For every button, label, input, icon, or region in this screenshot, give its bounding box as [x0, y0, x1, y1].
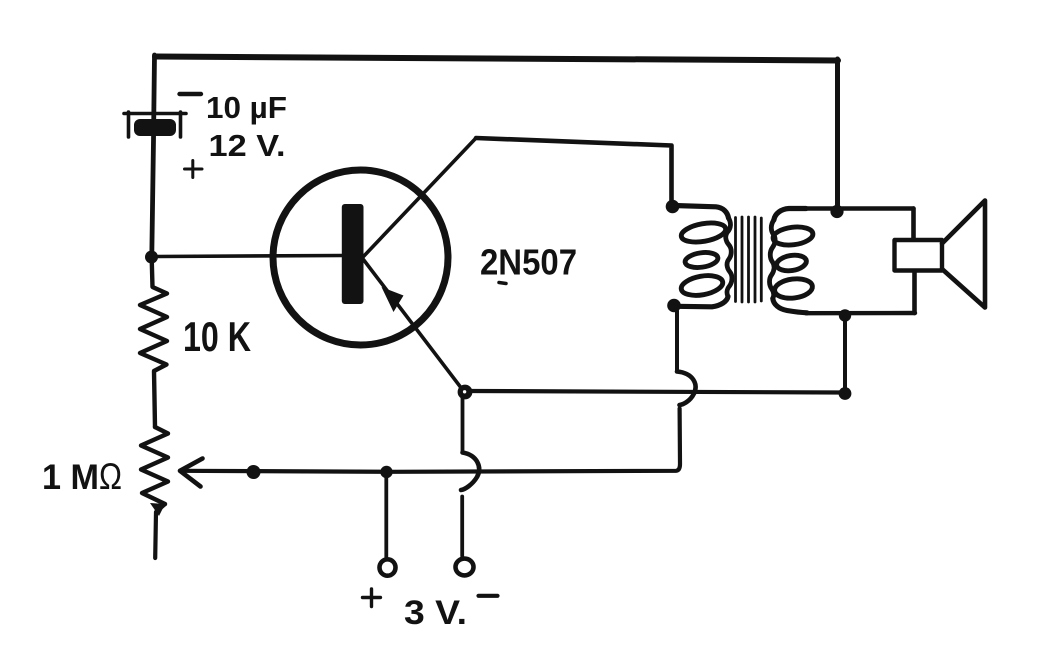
svg-text:10 µF: 10 µF	[206, 90, 287, 125]
transistor Q1 emitter lead	[363, 259, 462, 389]
wire secondary bottom run	[806, 311, 915, 316]
wire base	[157, 256, 342, 257]
node battery plus junction	[380, 466, 392, 478]
transformer T1 core laminations	[736, 217, 762, 302]
wire plus terminal drop	[384, 474, 388, 557]
wire collector run	[476, 138, 672, 201]
node emitter-secondary junction	[839, 387, 852, 400]
wire top-right drop	[835, 59, 840, 206]
capacitor C1 top plate bracket	[124, 112, 186, 137]
wire hop over emitter drop	[461, 453, 479, 491]
terminal plus circle	[380, 559, 396, 575]
transistor Q1 circle	[273, 170, 448, 345]
transformer T1 primary bottom lead	[676, 297, 728, 307]
wire secondary top run	[805, 206, 914, 210]
speaker frame top	[911, 209, 916, 241]
wire hop over primary drop	[677, 372, 696, 406]
wire top rail	[155, 57, 838, 61]
wire left rail	[152, 55, 155, 255]
speaker frame bottom	[912, 271, 917, 313]
svg-text:1 M: 1 M	[42, 458, 99, 497]
wire bottom return rail	[390, 409, 680, 472]
transformer T1 primary loop 3	[680, 273, 725, 299]
transistor Q1 base bar	[342, 204, 364, 304]
transformer T1 secondary loop 2	[776, 253, 808, 273]
node primary bottom	[667, 299, 681, 313]
node primary top	[666, 200, 680, 214]
wire wiper shaft	[180, 471, 388, 472]
label battery plus	[363, 589, 381, 607]
resistor R1 10K	[140, 262, 167, 427]
potentiometer R2 1M zigzag	[141, 427, 168, 504]
node secondary bottom	[839, 309, 851, 321]
wire minus terminal drop with hop	[461, 398, 465, 453]
transformer T1 secondary loop 3	[773, 277, 813, 300]
svg-text:2N507: 2N507	[480, 242, 577, 283]
transformer T1 secondary bottom lead	[773, 299, 807, 313]
node base junction	[145, 251, 158, 264]
transformer T1 secondary loop 1	[772, 225, 814, 247]
transformer T1 secondary spine	[770, 220, 776, 299]
speaker horn	[942, 201, 985, 308]
node emitter junction	[458, 385, 473, 400]
speaker driver box	[895, 240, 943, 271]
svg-text:3 V.: 3 V.	[404, 594, 467, 632]
label battery minus	[479, 594, 498, 598]
capacitor C1 bottom plate	[134, 119, 176, 136]
pot wiper arrow	[180, 459, 203, 487]
wire emitter rail	[470, 391, 841, 393]
terminal minus circle	[456, 559, 474, 576]
speck under label	[499, 283, 506, 284]
svg-text:Ω: Ω	[99, 456, 122, 497]
transistor Q1 collector lead	[363, 138, 476, 257]
transformer T1 primary loop 2	[684, 251, 719, 270]
node on wiper wire	[247, 465, 261, 479]
svg-text:12 V.: 12 V.	[209, 128, 286, 163]
transformer T1 primary top lead	[674, 206, 729, 219]
label C1 plus	[185, 161, 203, 178]
transistor Q1 emitter arrow	[382, 287, 404, 312]
svg-text:10 K: 10 K	[183, 313, 251, 360]
wire secondary bottom drop	[843, 318, 847, 389]
transformer T1 primary loop 1	[680, 220, 727, 245]
label C1 minus	[180, 92, 202, 96]
potentiometer R2 bottom tip	[155, 504, 165, 558]
transformer T1 primary spine	[726, 218, 732, 297]
transformer T1 secondary top lead	[774, 209, 806, 221]
node secondary top	[830, 205, 843, 218]
